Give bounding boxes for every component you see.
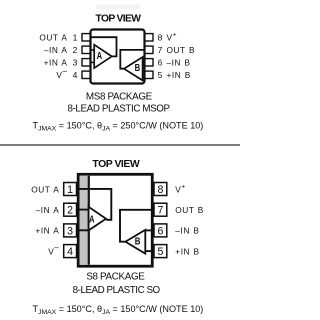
- op-amp U1B triangle (MS8): [124, 57, 143, 80]
- svg-text:–IN B: –IN B: [175, 226, 199, 236]
- section separator line: [0, 144, 240, 146]
- svg-text:–IN B: –IN B: [167, 57, 191, 67]
- svg-text:4: 4: [67, 246, 73, 258]
- svg-text:MS8 PACKAGE: MS8 PACKAGE: [86, 92, 153, 103]
- pin 6 box (S8): [154, 224, 167, 237]
- pin 2 box (S8): [64, 203, 77, 216]
- svg-text:B: B: [135, 63, 141, 74]
- svg-text:8: 8: [158, 32, 163, 42]
- svg-text:8: 8: [157, 184, 163, 196]
- svg-text:7: 7: [158, 45, 163, 55]
- pin 7 stub (MS8): [145, 46, 154, 53]
- svg-text:+IN B: +IN B: [175, 246, 199, 256]
- svg-text:OUT A: OUT A: [31, 184, 59, 194]
- svg-text:1: 1: [67, 184, 73, 196]
- pin 5 stub (MS8): [145, 71, 154, 78]
- pin 1 stub (MS8): [82, 34, 91, 41]
- svg-text:S8 PACKAGE: S8 PACKAGE: [86, 272, 145, 283]
- die edge line (S8): [88, 176, 90, 265]
- op-amp A (S8) input wire pin 2: [78, 209, 89, 211]
- package body MS8: [91, 30, 145, 84]
- pin 5 box (S8): [154, 245, 167, 258]
- pin 8 stub (MS8): [145, 34, 154, 41]
- svg-text:OUT B: OUT B: [167, 45, 196, 55]
- op-amp A (MS8) input wire pin 2: [91, 49, 95, 51]
- op-amp B (MS8) input wire pin 6: [143, 61, 145, 63]
- op-amp A (MS8) input wire pin 3: [91, 61, 95, 63]
- op-amp U2B triangle (S8): [125, 230, 145, 254]
- pin 3 box (S8): [64, 224, 77, 237]
- svg-text:–IN A: –IN A: [44, 45, 68, 55]
- svg-text:2: 2: [67, 205, 73, 217]
- op-amp U2A triangle (S8): [89, 207, 106, 231]
- svg-text:TOP VIEW: TOP VIEW: [96, 14, 142, 25]
- op-amp B (S8) input wire pin 5: [145, 250, 152, 252]
- svg-text:+IN B: +IN B: [167, 70, 191, 80]
- svg-text:7: 7: [157, 205, 163, 217]
- svg-text:2: 2: [73, 45, 78, 55]
- svg-text:6: 6: [158, 57, 163, 67]
- pin 7 box (S8): [154, 203, 167, 216]
- svg-text:4: 4: [73, 70, 78, 80]
- svg-text:8-LEAD PLASTIC MSOP: 8-LEAD PLASTIC MSOP: [67, 103, 170, 114]
- op-amp B (S8) input wire pin 6: [145, 229, 152, 231]
- svg-text:OUT A: OUT A: [39, 32, 67, 42]
- svg-text:8-LEAD PLASTIC SO: 8-LEAD PLASTIC SO: [73, 285, 161, 296]
- svg-text:TOP VIEW: TOP VIEW: [92, 159, 139, 170]
- svg-text:A: A: [97, 51, 103, 62]
- die shading strip (S8): [80, 176, 88, 265]
- svg-text:1: 1: [73, 32, 78, 42]
- op-amp A (S8) input wire pin 3: [78, 229, 89, 231]
- op-amp U1A triangle (MS8): [94, 45, 112, 68]
- svg-text:A: A: [89, 215, 95, 226]
- pin 4 stub (MS8): [82, 71, 91, 78]
- op-amp A (S8) output wire to pin 1: [78, 189, 111, 220]
- svg-text:5: 5: [158, 70, 163, 80]
- svg-text:–IN A: –IN A: [36, 205, 60, 215]
- svg-text:+IN A: +IN A: [35, 226, 59, 236]
- svg-text:6: 6: [157, 225, 163, 237]
- pin 1 box (S8): [64, 183, 77, 196]
- svg-text:B: B: [135, 237, 141, 248]
- pin 6 stub (MS8): [145, 59, 154, 66]
- pin 3 stub (MS8): [82, 59, 91, 66]
- pin 2 stub (MS8): [82, 46, 91, 53]
- op-amp B (MS8) input wire pin 5: [143, 74, 145, 76]
- svg-text:5: 5: [157, 246, 163, 258]
- svg-text:3: 3: [73, 57, 78, 67]
- faint cropped header artifact: [96, 5, 140, 10]
- pin 4 box (S8): [64, 245, 77, 258]
- pin 8 box (S8): [154, 183, 167, 196]
- op-amp B (S8) output wire to pin 7: [120, 210, 152, 242]
- svg-text:3: 3: [67, 225, 73, 237]
- svg-text:OUT B: OUT B: [175, 205, 204, 215]
- op-amp A (MS8) output wire to pin 1: [91, 37, 117, 56]
- package body S8: [78, 174, 152, 266]
- op-amp B (MS8) output wire to pin 7: [120, 50, 144, 69]
